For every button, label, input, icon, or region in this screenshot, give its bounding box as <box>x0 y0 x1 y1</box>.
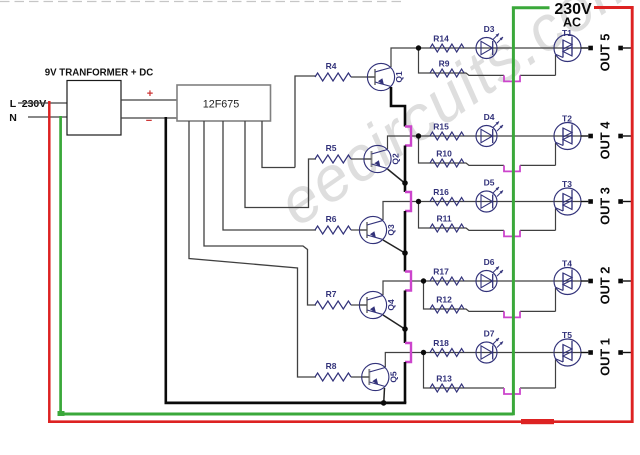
wire triac T1 to pad <box>581 47 588 49</box>
svg-text:R17: R17 <box>433 267 449 277</box>
wire base feed Q1 <box>351 76 375 78</box>
hop over neutral row 4 <box>504 311 520 317</box>
wire base feed Q5 <box>351 376 369 378</box>
terminal pad OUT 3 right <box>618 199 623 204</box>
resistor R7 <box>315 301 351 309</box>
svg-text:T5: T5 <box>562 330 572 340</box>
LED D5 <box>476 191 497 212</box>
ground rail: minus vertical <box>165 117 168 403</box>
wire collector Q1 to node <box>391 48 419 67</box>
resistor R17 <box>430 277 464 285</box>
wire row 3 main branch <box>419 201 555 203</box>
svg-text:T4: T4 <box>562 259 572 269</box>
svg-text:230V: 230V <box>22 98 47 110</box>
ground rail segment <box>404 291 407 344</box>
wire row 1 main branch <box>419 47 555 49</box>
hop over neutral row 5 <box>504 388 520 394</box>
svg-text:Q1: Q1 <box>394 71 404 83</box>
live rail red right vertical <box>631 6 634 423</box>
neutral rail green top <box>512 6 550 9</box>
resistor R14 <box>430 44 464 52</box>
rail hop over row5 <box>405 343 411 362</box>
node emitter junction 3 <box>402 250 408 256</box>
svg-text:R9: R9 <box>439 59 450 69</box>
svg-text:R12: R12 <box>436 295 452 305</box>
resistor R18 <box>430 349 464 357</box>
wire pad to live rail <box>623 47 631 49</box>
svg-text:Q4: Q4 <box>386 299 396 311</box>
wire row 5 lower branch <box>424 353 505 389</box>
svg-text:T1: T1 <box>562 28 572 38</box>
wire triac gate riser T1 <box>555 55 557 75</box>
svg-text:AC: AC <box>563 16 581 30</box>
rail hop over row4 <box>405 272 411 291</box>
wire collector Q4 to node <box>383 281 424 295</box>
wire collector Q2 to node <box>388 136 419 149</box>
wire Q1 emitter to rail <box>391 87 405 127</box>
wire PIC pin GP0 to R8 <box>189 121 316 377</box>
neutral rail green left vertical <box>59 116 62 415</box>
node row 2 junction <box>416 133 421 138</box>
svg-text:R13: R13 <box>436 374 452 384</box>
hop over neutral row 2 <box>504 165 520 171</box>
terminal pad OUT 4 left <box>588 134 593 139</box>
wire base feed Q3 <box>351 229 367 231</box>
wire row 1 lower branch <box>419 48 505 75</box>
resistor R4 <box>315 73 351 81</box>
neutral rail green bottom <box>59 413 513 416</box>
LED D7 <box>476 342 497 363</box>
svg-text:OUT 5: OUT 5 <box>598 34 613 72</box>
transistor Q5 <box>362 363 389 390</box>
svg-text:L: L <box>10 98 17 110</box>
svg-text:D5: D5 <box>484 178 495 188</box>
wire N to transformer <box>28 116 67 118</box>
hop over neutral row 1 <box>504 75 520 81</box>
wire PIC pin GP4 to R5 <box>245 121 316 208</box>
svg-text:T3: T3 <box>562 179 572 189</box>
svg-text:12F675: 12F675 <box>203 99 240 111</box>
svg-text:Q2: Q2 <box>391 153 401 165</box>
wire collector Q5 to node <box>385 353 423 368</box>
live rail red left vertical <box>48 101 51 423</box>
wire transformer plus to PIC <box>121 99 177 101</box>
svg-text:R5: R5 <box>326 143 337 153</box>
wire triac gate riser T4 <box>555 288 557 311</box>
terminal pad OUT 1 right <box>618 350 623 355</box>
node row 4 junction <box>421 278 426 283</box>
svg-text:eecircuits.com: eecircuits.com <box>266 0 640 239</box>
LED D3 <box>476 38 497 59</box>
wire triac T5 to pad <box>581 352 588 354</box>
wire row 4 main branch <box>424 280 555 282</box>
transistor Q2 <box>364 145 391 172</box>
svg-text:−: − <box>146 115 152 127</box>
svg-text:T2: T2 <box>562 114 572 124</box>
svg-text:OUT 2: OUT 2 <box>598 267 613 305</box>
neutral rail green right vertical <box>512 7 515 416</box>
svg-text:OUT 1: OUT 1 <box>598 338 613 376</box>
triac T5 <box>554 339 581 366</box>
resistor R12 <box>430 305 464 313</box>
triac T3 <box>554 188 581 215</box>
svg-text:R4: R4 <box>326 61 337 71</box>
LED D4 <box>476 126 497 147</box>
triac T4 <box>554 268 581 295</box>
resistor R8 <box>315 373 351 381</box>
triac T1 <box>554 35 581 62</box>
wire row 4 lower branch <box>424 281 505 311</box>
svg-text:OUT 4: OUT 4 <box>598 121 613 160</box>
terminal pad OUT 5 left <box>588 46 593 51</box>
top page-break dashed line <box>0 1 405 3</box>
wire Q5 emitter join <box>383 388 386 402</box>
resistor R9 <box>430 69 464 77</box>
svg-text:D6: D6 <box>484 257 495 267</box>
ground rail segment <box>404 211 407 272</box>
wire row 2 main branch <box>419 135 555 137</box>
terminal pad OUT 3 left <box>588 199 593 204</box>
terminal pad OUT 2 right <box>618 279 623 284</box>
resistor R15 <box>430 132 464 140</box>
LED D6 <box>476 271 497 292</box>
ground rail segment <box>404 362 407 403</box>
rail hop over row2 <box>405 127 411 146</box>
wire Q2 emitter join <box>388 169 405 183</box>
IC U1 12F675 <box>177 85 271 121</box>
live rail red bottom <box>48 420 632 423</box>
wire triac T4 to pad <box>581 280 588 282</box>
wire row 2 lower branch <box>419 136 505 165</box>
svg-text:D4: D4 <box>484 112 495 122</box>
svg-text:9V TRANFORMER + DC: 9V TRANFORMER + DC <box>45 68 153 79</box>
wire triac gate riser T5 <box>555 360 557 389</box>
resistor R11 <box>430 224 464 232</box>
svg-text:+: + <box>147 88 153 100</box>
rail hop over row3 <box>405 192 411 211</box>
svg-text:R6: R6 <box>326 214 337 224</box>
hop over neutral row 3 <box>504 230 520 236</box>
terminal pad OUT 5 right <box>618 46 623 51</box>
resistor R5 <box>315 155 351 163</box>
svg-text:N: N <box>9 112 17 124</box>
resistor R6 <box>315 226 351 234</box>
wire PIC pin GP5 to R4 <box>262 121 295 168</box>
svg-text:R18: R18 <box>433 338 449 348</box>
wire row 3 lower branch <box>419 202 505 231</box>
svg-text:D7: D7 <box>484 329 495 339</box>
node row 5 junction <box>421 350 426 355</box>
wire Q4 emitter join <box>383 315 404 329</box>
wire PIC pin GP2 to R6 <box>223 121 316 230</box>
wire pad to live rail <box>623 135 631 137</box>
ground rail: bottom horizontal <box>165 401 407 404</box>
svg-text:R8: R8 <box>326 361 337 371</box>
svg-text:OUT 3: OUT 3 <box>598 187 613 225</box>
node emitter junction 4 <box>402 326 408 332</box>
wire Q3 emitter join <box>383 240 404 253</box>
live rail red top <box>594 6 634 9</box>
wire base feed Q2 <box>351 158 372 160</box>
terminal pad OUT 2 left <box>588 279 593 284</box>
resistor R10 <box>430 159 464 167</box>
svg-text:R11: R11 <box>436 214 451 224</box>
transformer T/DC block <box>67 81 121 136</box>
transistor Q4 <box>359 291 386 318</box>
terminal pad OUT 4 right <box>618 134 623 139</box>
wire triac T2 to pad <box>581 135 588 137</box>
node emitter junction 5 <box>381 400 387 406</box>
wire pad to live rail <box>623 201 631 203</box>
wire L to transformer <box>18 102 67 104</box>
svg-text:D3: D3 <box>484 24 495 34</box>
wire PIC pin GP1 to R7 <box>204 121 316 305</box>
svg-text:Q5: Q5 <box>388 371 398 383</box>
wire pad to live rail <box>623 352 631 354</box>
wire pad to live rail <box>623 280 631 282</box>
svg-text:R16: R16 <box>433 187 449 197</box>
wire transformer minus <box>121 117 177 119</box>
transistor Q1 <box>367 63 394 90</box>
ground rail segment <box>404 146 407 193</box>
svg-text:R15: R15 <box>433 122 449 132</box>
svg-text:R14: R14 <box>433 34 449 44</box>
resistor R13 <box>430 384 464 392</box>
svg-text:Q3: Q3 <box>386 224 396 236</box>
resistor R16 <box>430 198 464 206</box>
wire base feed Q4 <box>351 304 367 306</box>
wire triac gate riser T2 <box>555 143 557 165</box>
wire triac gate riser T3 <box>555 209 557 231</box>
wire row 5 main branch <box>424 352 555 354</box>
wire triac T3 to pad <box>581 201 588 203</box>
svg-text:R7: R7 <box>326 289 337 299</box>
node row 1 junction <box>416 45 421 50</box>
svg-text:R10: R10 <box>436 149 452 159</box>
terminal pad OUT 1 left <box>588 350 593 355</box>
wire collector Q3 to node <box>383 202 419 221</box>
node emitter junction 2 <box>402 180 408 186</box>
triac T2 <box>554 123 581 150</box>
node row 3 junction <box>416 199 421 204</box>
transistor Q3 <box>359 216 386 243</box>
